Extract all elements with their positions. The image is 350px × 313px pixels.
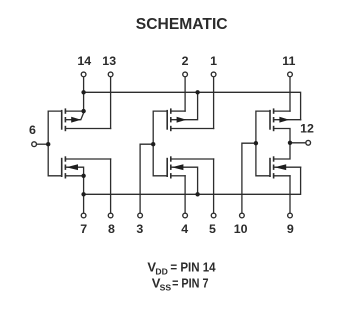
wire P2 body to VDD	[171, 92, 198, 119]
wire N1 source to pin 7	[65, 175, 83, 177]
junction VDD-pin14	[81, 90, 85, 94]
svg-text:SS: SS	[160, 283, 172, 293]
junction pin 10 gate tie	[254, 141, 258, 145]
pin 9 terminal	[288, 213, 293, 218]
wire P1 body diagonal	[65, 113, 83, 120]
transistor P3 PMOS	[270, 108, 289, 131]
junction pin 12 drain tie	[288, 141, 292, 145]
svg-text:10: 10	[234, 222, 248, 236]
svg-text:2: 2	[182, 54, 189, 68]
svg-text:13: 13	[102, 54, 116, 68]
svg-text:11: 11	[282, 54, 295, 68]
svg-text:9: 9	[287, 222, 294, 236]
svg-text:6: 6	[29, 123, 36, 137]
pin 11 terminal	[288, 72, 293, 77]
pin 14 terminal	[81, 72, 86, 77]
pin 6 terminal	[32, 142, 37, 147]
wire pin 7 vertical	[83, 176, 85, 214]
pin 12 terminal	[306, 140, 311, 145]
svg-text:14: 14	[77, 54, 91, 68]
wire pin 13 vertical	[110, 75, 112, 129]
svg-text:SCHEMATIC: SCHEMATIC	[136, 16, 228, 33]
wire pin 8 vertical	[110, 159, 112, 214]
wire P2 drain to pin 1	[171, 128, 214, 130]
wire N3 source to pin 9	[274, 175, 290, 177]
node VDD rail	[84, 92, 301, 119]
junction N2 body VSS	[195, 192, 199, 196]
wire pin 1 vertical	[213, 75, 215, 129]
wire N1 body	[65, 167, 83, 176]
pin 2 terminal	[183, 72, 188, 77]
pin 7 terminal	[81, 213, 86, 218]
transistor N3 NMOS	[270, 156, 286, 178]
svg-text:7: 7	[80, 222, 87, 236]
pin 4 terminal	[183, 213, 188, 218]
pin 5 terminal	[211, 213, 216, 218]
wire N2 source to pin 4	[171, 175, 185, 177]
wire pin 4 vertical	[184, 176, 186, 214]
wire pin 3 vertical	[140, 144, 153, 214]
svg-text:8: 8	[108, 222, 115, 236]
wire pin 12 stub	[290, 142, 306, 144]
wire pin 14 vertical	[83, 75, 85, 113]
pin 3 terminal	[138, 213, 143, 218]
wire P3 source to pin 11	[274, 110, 290, 112]
wire pin 11 vertical	[289, 75, 291, 111]
svg-text:3: 3	[136, 222, 143, 236]
wire pin 2 vertical	[184, 75, 186, 111]
pin 10 terminal	[240, 213, 245, 218]
junction P1 source	[81, 109, 85, 113]
wire P2 source to pin 2	[171, 110, 185, 112]
wire pin 10 vertical	[242, 143, 256, 214]
junction VSS-pin7	[81, 192, 85, 196]
transistor N1 NMOS	[62, 156, 78, 178]
wire pin 9 vertical	[289, 176, 291, 214]
wire N3 body to VSS	[274, 166, 301, 168]
wire gate tie A	[48, 111, 62, 176]
wire P3 body to VDD	[274, 119, 301, 121]
svg-text:12: 12	[300, 122, 314, 136]
svg-text:= PIN 7: = PIN 7	[172, 275, 208, 290]
svg-text:4: 4	[181, 222, 188, 236]
wire gate tie C	[256, 111, 270, 176]
junction N1 source	[81, 174, 85, 178]
transistor N2 NMOS	[167, 156, 183, 178]
wire N2 body to VSS	[171, 167, 198, 194]
junction pin 6 gate tie	[46, 142, 50, 146]
svg-text:5: 5	[209, 222, 216, 236]
pin 1 terminal	[211, 72, 216, 77]
wire gate tie B	[153, 111, 167, 176]
wire P3 drain down	[274, 129, 290, 160]
transistor P1 PMOS	[62, 108, 81, 131]
wire pin 5 vertical	[213, 159, 215, 214]
wire P1 source to pin 14	[65, 110, 83, 112]
wire pin 6 stub	[34, 143, 48, 145]
transistor P2 PMOS	[167, 108, 186, 131]
svg-text:= PIN 14: = PIN 14	[170, 259, 216, 274]
wire P1 drain to pin 13	[65, 128, 110, 130]
svg-text:1: 1	[210, 54, 217, 68]
junction pin 3 gate tie	[151, 142, 155, 146]
pin 8 terminal	[108, 213, 113, 218]
wire N1 drain to pin 8	[65, 158, 110, 160]
node VSS rail	[84, 167, 301, 194]
junction P2 body VDD	[195, 90, 199, 94]
pin 13 terminal	[108, 72, 113, 77]
wire N2 drain to pin 5	[171, 158, 214, 160]
